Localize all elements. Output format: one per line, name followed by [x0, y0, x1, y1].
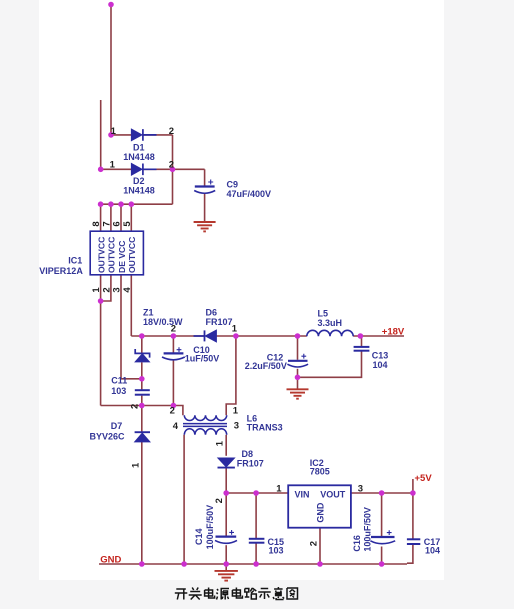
svg-text:C13: C13	[372, 350, 389, 360]
svg-text:+18V: +18V	[382, 326, 405, 337]
node C12 rail	[295, 333, 301, 339]
capacitor C17	[407, 539, 420, 544]
wire transformer pin4 lead	[183, 435, 185, 564]
ground at C12	[287, 389, 309, 398]
svg-text:4: 4	[173, 421, 179, 432]
IC U1 VIPER12A body	[90, 231, 143, 275]
svg-text:2: 2	[309, 541, 320, 546]
svg-text:1: 1	[111, 126, 117, 137]
wire Z1 cathode lead	[141, 336, 143, 353]
wire IC1 pin4 drain	[130, 275, 132, 336]
svg-text:VIN: VIN	[295, 489, 310, 499]
svg-text:1: 1	[110, 160, 116, 171]
node C16 rail	[379, 490, 385, 496]
node bus pin6	[118, 201, 124, 207]
svg-text:1: 1	[233, 405, 239, 416]
wire +5V terminal stub	[412, 479, 414, 493]
char 示	[258, 589, 271, 600]
transformer L6 core	[183, 424, 227, 427]
wire C13 top lead	[361, 336, 363, 346]
node C11 D7	[139, 403, 145, 409]
svg-text:18V/0.5W: 18V/0.5W	[143, 317, 183, 327]
wire IC1 pin2	[101, 275, 111, 301]
node Z1 drain rail	[139, 333, 145, 339]
svg-text:2: 2	[169, 126, 174, 137]
wire +5V rail	[226, 492, 413, 494]
char 图	[287, 588, 298, 599]
svg-text:47uF/400V: 47uF/400V	[227, 189, 272, 199]
node bus pin8	[98, 201, 104, 207]
inductor L5	[307, 330, 353, 336]
char 关	[189, 588, 202, 600]
node C15 GND rail	[253, 561, 259, 567]
char 电	[205, 588, 215, 599]
wire D7 bottom lead to GND rail	[141, 442, 143, 564]
wire IC1 pin1	[100, 275, 102, 301]
wire IC1 pin3	[121, 275, 142, 379]
diode D8	[218, 458, 235, 468]
wire D2 cathode to C9	[144, 168, 205, 170]
wire IC1 pin5	[130, 204, 132, 231]
wire C15 top lead	[255, 493, 257, 538]
svg-text:OUTVCC: OUTVCC	[127, 237, 137, 273]
node C12 C13 bottom	[295, 375, 301, 381]
char 意	[273, 587, 284, 600]
node bus pin5	[129, 201, 135, 207]
svg-text:C16: C16	[352, 535, 362, 552]
svg-text:103: 103	[269, 546, 284, 556]
wire Z1 anode lead	[141, 362, 143, 379]
svg-text:OUTVCC: OUTVCC	[96, 237, 106, 273]
wire C14 bottom lead	[225, 545, 227, 564]
svg-text:1N4148: 1N4148	[123, 186, 155, 196]
node D2 cathode junction	[170, 167, 176, 173]
svg-text:2: 2	[130, 404, 141, 409]
svg-text:Z1: Z1	[143, 307, 154, 317]
node C14 GND rail	[223, 561, 229, 567]
svg-text:BYV26C: BYV26C	[90, 431, 126, 441]
wire C10 bottom lead	[172, 361, 174, 406]
char 电	[232, 588, 242, 599]
svg-text:VOUT: VOUT	[320, 489, 346, 499]
wire D1 cathode to corner	[144, 134, 173, 136]
wire IC2 pin2 lead	[319, 528, 321, 564]
wire C12 bottom lead	[297, 369, 299, 389]
svg-text:2: 2	[169, 160, 174, 171]
wire C15 bottom lead	[255, 543, 257, 564]
node D6 transformer rail	[233, 333, 239, 339]
zener Z1	[135, 349, 149, 362]
svg-text:D6: D6	[206, 307, 218, 317]
svg-text:1uF/50V: 1uF/50V	[185, 353, 220, 363]
svg-text:1: 1	[215, 440, 226, 446]
node +5V terminal	[410, 490, 416, 496]
wire source net vertical	[100, 301, 102, 406]
wire IC1 pin7	[110, 204, 112, 231]
wire input line 1 vertical	[110, 4, 112, 135]
transformer L6 primary winding	[184, 415, 226, 420]
capacitor C11	[135, 390, 150, 395]
svg-text:3: 3	[358, 484, 363, 495]
capacitor C13	[354, 347, 370, 351]
node bus pin7	[108, 201, 114, 207]
wire transformer pin3 lead to D8	[225, 435, 227, 456]
node C13 rail	[358, 333, 364, 339]
svg-text:1N4148: 1N4148	[123, 152, 155, 162]
svg-text:3.3uH: 3.3uH	[318, 318, 343, 328]
wire source net horizontal	[101, 405, 174, 407]
svg-text:C14: C14	[194, 528, 204, 545]
diode D6	[194, 330, 217, 342]
svg-text:5: 5	[122, 221, 133, 227]
wire C17 top lead	[412, 493, 414, 539]
wire C10 top lead	[172, 336, 174, 353]
wire rail L5 to +18V	[353, 335, 404, 337]
wire C11 bottom lead	[141, 396, 143, 406]
svg-text:OUTVCC: OUTVCC	[107, 237, 117, 273]
svg-text:2: 2	[170, 406, 175, 417]
diode D7	[135, 432, 150, 442]
wire input line 2 vertical	[100, 100, 102, 169]
node D7 GND rail	[139, 561, 145, 567]
svg-text:3: 3	[234, 421, 239, 432]
svg-text:1: 1	[276, 484, 282, 495]
wire drain rail	[131, 335, 204, 337]
IC U2 7805 body	[288, 485, 351, 527]
svg-text:100uF/50V: 100uF/50V	[205, 505, 215, 550]
svg-text:C9: C9	[227, 179, 239, 189]
svg-text:4: 4	[122, 287, 133, 293]
svg-text:2.2uF/50V: 2.2uF/50V	[245, 361, 287, 371]
svg-text:FR107: FR107	[237, 458, 264, 468]
wire C14 top lead	[225, 493, 227, 536]
char 路	[245, 588, 256, 599]
wire GND rail	[99, 563, 407, 565]
svg-text:100uF/50V: 100uF/50V	[362, 507, 372, 552]
wire VDD bus	[101, 203, 173, 205]
wire transformer pin2 lead	[173, 406, 183, 416]
wire IC1 pin8	[100, 204, 102, 231]
ground at GND rail	[215, 571, 238, 581]
wire IC1 pin6	[120, 204, 122, 231]
svg-text:103: 103	[111, 386, 126, 396]
diode D2	[131, 164, 156, 176]
svg-text:D7: D7	[111, 421, 123, 431]
svg-text:TRANS3: TRANS3	[247, 422, 283, 432]
char 源	[217, 589, 230, 600]
node Z1 C11 pin3	[139, 376, 145, 382]
node C10 drain rail	[171, 333, 177, 339]
node input1 top	[108, 2, 114, 8]
svg-text:2: 2	[214, 498, 225, 503]
wire C9 top lead	[204, 169, 206, 185]
svg-text:1: 1	[130, 462, 141, 468]
char 开	[175, 589, 188, 600]
capacitor C12 electrolytic	[287, 354, 308, 367]
capacitor C16 electrolytic	[370, 530, 395, 543]
node D2 anode junction	[98, 167, 104, 173]
wire D1 anode	[111, 134, 132, 136]
node pin1-pin2 junction	[98, 298, 104, 304]
capacitor C15	[249, 539, 265, 543]
node D1 anode junction	[108, 132, 114, 138]
capacitor C10 electrolytic	[162, 347, 185, 360]
title 开关电源电路示意图 (drawn strokes)	[175, 587, 298, 600]
node transformer pin4 GND rail	[181, 561, 187, 567]
wire C16 bottom lead	[381, 547, 383, 565]
svg-text:7805: 7805	[310, 466, 330, 476]
wire C16 top lead	[381, 493, 383, 537]
node D8 C14 rail	[223, 490, 229, 496]
svg-text:GND: GND	[316, 502, 326, 523]
diode D1	[131, 129, 156, 141]
node C10 transformer pin2	[171, 403, 177, 409]
svg-text:D2: D2	[133, 176, 145, 186]
svg-text:IC1: IC1	[68, 255, 82, 265]
node C16 GND rail	[379, 561, 385, 567]
svg-text:C11: C11	[111, 375, 127, 385]
wire C9 bottom lead to ground	[204, 194, 206, 222]
svg-text:104: 104	[373, 360, 388, 370]
wire transformer pin1 lead	[226, 336, 236, 415]
svg-text:1: 1	[232, 324, 238, 335]
svg-text:104: 104	[425, 546, 440, 556]
wire C13 bottom lead	[298, 351, 362, 377]
svg-text:D1: D1	[133, 142, 145, 152]
svg-text:D8: D8	[242, 449, 254, 459]
ground at C9	[194, 222, 216, 231]
node IC2 pin2 GND rail	[317, 561, 323, 567]
wire ground stem bottom	[225, 564, 227, 570]
svg-text:DE VCC: DE VCC	[117, 241, 127, 273]
wire C17 bottom lead	[407, 545, 413, 564]
capacitor C14 electrolytic	[215, 530, 237, 543]
wire rail D6 to L5	[216, 335, 306, 337]
wire C11 top lead	[141, 379, 143, 390]
node C15 rail	[253, 490, 259, 496]
svg-text:FR107: FR107	[206, 317, 233, 327]
wire C12 top lead	[297, 336, 299, 360]
wire D7 top lead	[141, 406, 143, 433]
wire D2 anode	[101, 168, 132, 170]
svg-text:GND: GND	[100, 554, 121, 565]
wire D8 cathode lead	[225, 468, 227, 493]
svg-text:VIPER12A: VIPER12A	[39, 266, 83, 276]
svg-text:+5V: +5V	[415, 473, 433, 484]
wire vertical D1 cathode down	[172, 135, 174, 204]
svg-text:2: 2	[171, 324, 176, 335]
capacitor C9 electrolytic	[194, 180, 215, 194]
transformer L6 secondary winding	[184, 429, 226, 435]
